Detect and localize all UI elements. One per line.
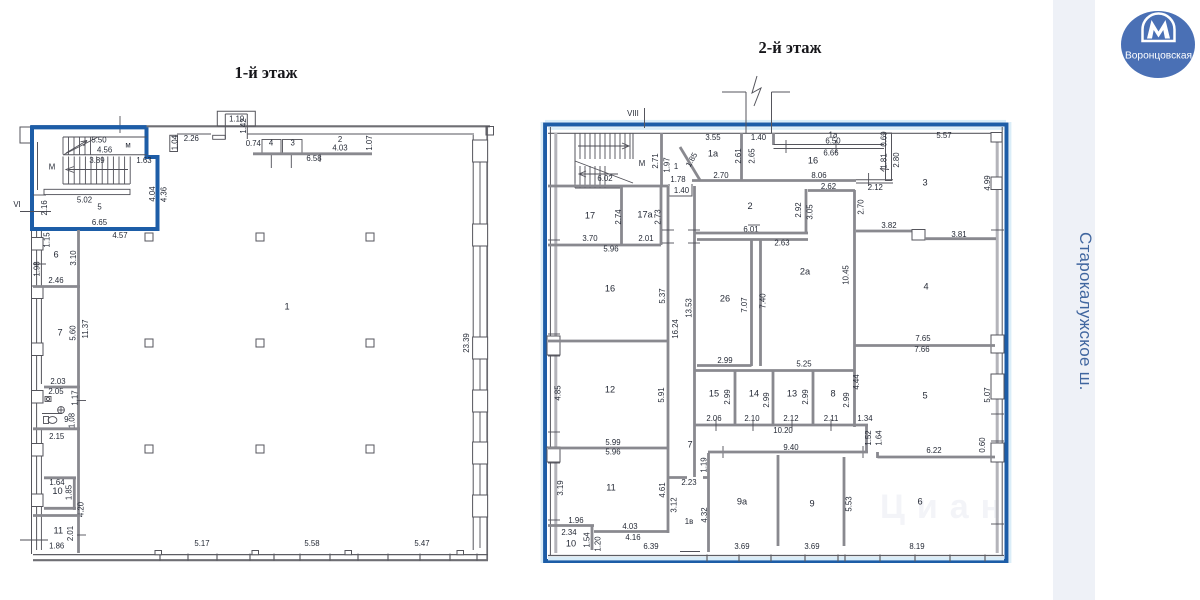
room 10 walls <box>44 476 76 479</box>
plan 1 left wall <box>31 127 33 554</box>
svg-text:1.54: 1.54 <box>583 532 592 548</box>
svg-text:1.34: 1.34 <box>857 414 873 423</box>
svg-text:6.66: 6.66 <box>823 149 838 158</box>
svg-text:2.71: 2.71 <box>651 153 660 168</box>
plan 2 stairs upper flight <box>574 133 576 159</box>
svg-text:4: 4 <box>923 281 928 291</box>
svg-text:26: 26 <box>720 293 730 303</box>
wc toilet symbol <box>44 417 49 424</box>
svg-text:4.57: 4.57 <box>112 231 127 240</box>
svg-text:16.24: 16.24 <box>671 319 680 339</box>
plan 1 top wall inner line <box>177 133 211 135</box>
svg-text:4.85: 4.85 <box>554 385 563 401</box>
stairwell walls <box>548 185 668 188</box>
svg-text:17: 17 <box>585 210 595 220</box>
stairs arrow left lower <box>580 173 618 175</box>
svg-text:2.80: 2.80 <box>892 152 901 168</box>
room 2 wall <box>253 152 372 155</box>
svg-text:1.07: 1.07 <box>365 135 374 150</box>
svg-text:5.07: 5.07 <box>983 387 992 402</box>
svg-text:6: 6 <box>917 496 922 506</box>
svg-text:7.65: 7.65 <box>915 334 931 343</box>
svg-text:5.60: 5.60 <box>69 325 78 341</box>
wall pilaster right of stairwell <box>170 135 178 151</box>
columns grid <box>145 233 153 241</box>
svg-text:7.07: 7.07 <box>740 297 749 312</box>
svg-text:5.53: 5.53 <box>845 496 854 511</box>
svg-text:М: М <box>639 159 646 168</box>
svg-text:1.15: 1.15 <box>43 232 52 248</box>
svg-text:4.03: 4.03 <box>332 144 347 153</box>
svg-text:9: 9 <box>809 498 814 508</box>
room 4 <box>855 344 996 347</box>
wall top of cells row <box>695 369 855 372</box>
svg-text:1.20: 1.20 <box>594 536 603 552</box>
rooms 4 and 3 boxes <box>262 140 281 154</box>
svg-text:10.45: 10.45 <box>842 265 851 285</box>
wc walls <box>44 386 80 389</box>
svg-text:9.40: 9.40 <box>783 443 799 452</box>
cell door ticks <box>715 419 717 431</box>
stairs landing slab <box>44 189 130 194</box>
room 12 <box>548 447 668 450</box>
wc sink symbol <box>58 407 65 414</box>
corridor walls vertical <box>667 186 670 533</box>
svg-text:7.66: 7.66 <box>914 345 929 354</box>
svg-text:1.64: 1.64 <box>875 430 884 446</box>
svg-text:5.91: 5.91 <box>657 387 666 402</box>
svg-text:10.20: 10.20 <box>773 426 793 435</box>
svg-text:1.42: 1.42 <box>239 118 248 133</box>
svg-text:9а: 9а <box>737 496 748 506</box>
svg-text:3.69: 3.69 <box>804 542 819 551</box>
bottom wall windows <box>680 551 700 553</box>
cells 15 14 13 8 <box>734 371 737 425</box>
rooms 17 17a <box>620 186 623 245</box>
room 1a right wall <box>740 133 743 180</box>
svg-text:3.12: 3.12 <box>670 497 679 512</box>
svg-text:6.50: 6.50 <box>825 137 841 146</box>
svg-text:4.99: 4.99 <box>983 175 992 190</box>
svg-text:2.10: 2.10 <box>744 414 760 423</box>
svg-text:М: М <box>49 163 56 172</box>
svg-text:16: 16 <box>808 155 818 165</box>
svg-text:2.12: 2.12 <box>783 414 798 423</box>
watermark <box>880 488 1090 528</box>
room 26 <box>750 240 753 366</box>
room 11 walls <box>33 514 80 517</box>
room 3 bottom wall <box>856 230 913 233</box>
svg-text:5.96: 5.96 <box>605 448 620 457</box>
svg-text:13.53: 13.53 <box>685 298 694 318</box>
svg-text:2.99: 2.99 <box>717 356 732 365</box>
plan 2 left wall radiators <box>547 336 560 355</box>
svg-text:1.98: 1.98 <box>33 261 42 276</box>
svg-text:6.58: 6.58 <box>306 154 321 163</box>
stairs flight upper <box>62 137 64 155</box>
svg-text:7: 7 <box>687 439 692 449</box>
wall between 2 and 2a <box>805 189 808 233</box>
title first floor <box>166 63 366 83</box>
svg-text:2.26: 2.26 <box>184 134 199 143</box>
svg-text:3.19: 3.19 <box>556 480 565 495</box>
plan 2 bottom wall <box>548 555 1004 557</box>
svg-text:7.40: 7.40 <box>759 293 768 309</box>
metro station logo Vorontsovskaya <box>1118 6 1200 86</box>
svg-text:8: 8 <box>830 388 835 398</box>
svg-text:8.06: 8.06 <box>811 171 826 180</box>
svg-text:2.99: 2.99 <box>762 392 771 407</box>
svg-text:4.61: 4.61 <box>658 482 667 497</box>
svg-text:0.69: 0.69 <box>880 131 889 146</box>
svg-text:2.70: 2.70 <box>857 199 866 215</box>
svg-text:6.22: 6.22 <box>926 446 941 455</box>
right wall windows <box>473 140 488 162</box>
svg-text:3.10: 3.10 <box>69 250 78 266</box>
stairs flight lower <box>62 157 64 185</box>
svg-text:4.03: 4.03 <box>622 522 637 531</box>
svg-text:5.96: 5.96 <box>603 245 618 254</box>
stairs upper diagonal <box>64 137 98 155</box>
svg-text:2.62: 2.62 <box>821 182 836 191</box>
svg-text:1.85: 1.85 <box>65 484 74 500</box>
svg-text:2.99: 2.99 <box>801 389 810 404</box>
svg-text:11.37: 11.37 <box>81 320 90 339</box>
svg-text:2.73: 2.73 <box>654 209 663 224</box>
svg-text:1.52: 1.52 <box>864 430 873 445</box>
svg-text:1а: 1а <box>708 148 719 158</box>
svg-text:10: 10 <box>52 486 62 496</box>
svg-text:1.40: 1.40 <box>751 133 767 142</box>
stairwell inner wall line <box>37 142 39 190</box>
svg-text:3.82: 3.82 <box>881 221 896 230</box>
svg-text:5: 5 <box>97 203 102 212</box>
svg-text:3.05: 3.05 <box>806 204 815 220</box>
svg-text:5.47: 5.47 <box>414 539 429 548</box>
svg-text:5.02: 5.02 <box>77 195 92 204</box>
vestibule M <box>660 133 663 186</box>
plan 1 bottom wall <box>33 554 488 556</box>
svg-text:1в: 1в <box>685 517 693 526</box>
svg-text:2.15: 2.15 <box>49 432 65 441</box>
svg-text:3.69: 3.69 <box>734 542 749 551</box>
svg-text:13: 13 <box>787 388 797 398</box>
wc urinal symbol <box>45 397 51 402</box>
svg-text:1.04: 1.04 <box>170 134 179 150</box>
svg-text:1.08: 1.08 <box>68 413 77 428</box>
svg-text:10: 10 <box>566 538 576 548</box>
svg-text:1.17: 1.17 <box>71 390 80 405</box>
street name vertical text <box>1053 232 1095 452</box>
diagonal wall room 1a <box>680 147 701 181</box>
svg-text:2.46: 2.46 <box>48 276 63 285</box>
svg-text:2.06: 2.06 <box>706 414 721 423</box>
svg-text:6: 6 <box>53 249 58 259</box>
stairs mid line <box>63 154 147 156</box>
bottom wall window piers <box>155 551 162 555</box>
svg-text:11: 11 <box>606 482 616 492</box>
plan 1 right wall <box>472 135 474 550</box>
svg-text:м: м <box>125 141 130 150</box>
svg-text:0.74: 0.74 <box>246 139 262 148</box>
svg-text:17а: 17а <box>637 209 653 219</box>
svg-text:VI: VI <box>13 200 20 209</box>
dimension ticks plan 2 <box>662 229 674 231</box>
svg-text:5.37: 5.37 <box>658 288 667 303</box>
svg-text:5.50: 5.50 <box>91 135 107 144</box>
svg-text:5: 5 <box>922 390 927 400</box>
rooms 9a 9 6 dividers <box>777 455 780 546</box>
svg-text:2.16: 2.16 <box>40 200 49 215</box>
ledge wall room 16 top <box>772 133 775 145</box>
svg-text:5.58: 5.58 <box>304 539 319 548</box>
svg-text:2.70: 2.70 <box>713 171 729 180</box>
svg-text:2.99: 2.99 <box>723 389 732 404</box>
upper corridor wall <box>692 179 856 182</box>
plan 2 stairs lower flight <box>575 161 633 183</box>
svg-text:1.85: 1.85 <box>684 150 700 168</box>
svg-text:4.56: 4.56 <box>97 146 112 155</box>
svg-text:1.86: 1.86 <box>49 541 64 550</box>
entrance shaft above plan 2 <box>745 92 747 133</box>
svg-text:0.60: 0.60 <box>978 437 987 453</box>
svg-text:23.39: 23.39 <box>462 333 471 353</box>
svg-text:1.78: 1.78 <box>670 175 685 184</box>
svg-text:5.25: 5.25 <box>796 360 812 369</box>
room 2a <box>759 240 762 366</box>
svg-text:6.39: 6.39 <box>643 542 658 551</box>
plan 1 top-left corner block <box>20 127 31 143</box>
room 16 right wall <box>886 133 892 181</box>
wall 2.63 and room 26 top <box>697 238 808 241</box>
plan 1 roof bump outer <box>217 111 255 126</box>
svg-text:2.12: 2.12 <box>868 183 883 192</box>
svg-text:3.81: 3.81 <box>951 230 966 239</box>
left wall pilasters <box>32 238 44 251</box>
svg-text:1.96: 1.96 <box>568 516 583 525</box>
svg-text:2.05: 2.05 <box>48 387 64 396</box>
street strip (Starokaluzhskoe highway) <box>1053 0 1095 600</box>
stairs arrow lower <box>68 169 128 171</box>
svg-text:16: 16 <box>605 283 615 293</box>
tick marks on top wall <box>119 116 121 133</box>
svg-text:2а: 2а <box>800 266 811 276</box>
right wall top corner cap <box>486 127 494 136</box>
svg-text:3: 3 <box>922 177 927 187</box>
room 16 middle <box>548 340 668 343</box>
svg-text:VIII: VIII <box>627 109 639 118</box>
svg-text:2.23: 2.23 <box>681 478 696 487</box>
svg-text:2.01: 2.01 <box>638 234 653 243</box>
svg-text:4: 4 <box>269 139 274 148</box>
plan 2 right wall radiators <box>991 133 1002 143</box>
svg-text:3.70: 3.70 <box>582 234 598 243</box>
svg-text:1.97: 1.97 <box>663 157 672 172</box>
svg-text:5.17: 5.17 <box>194 539 209 548</box>
blue highlight box stairwell unit VI <box>32 127 158 229</box>
svg-text:2.61: 2.61 <box>734 148 743 163</box>
stairs arrow upper <box>66 141 87 154</box>
svg-text:2.03: 2.03 <box>50 377 65 386</box>
corridor bottom walls <box>865 425 868 453</box>
plan 2 left wall <box>549 127 551 556</box>
room 6 walls <box>77 230 80 553</box>
svg-text:6.02: 6.02 <box>597 174 612 183</box>
svg-text:2.34: 2.34 <box>561 528 577 537</box>
plan 2 blue perimeter <box>545 125 1007 562</box>
wall right of 2a <box>853 190 856 427</box>
svg-text:2.63: 2.63 <box>774 239 789 248</box>
svg-text:1.63: 1.63 <box>136 156 151 165</box>
svg-text:8.19: 8.19 <box>909 542 924 551</box>
plan 1 roof bump shaft <box>224 114 226 139</box>
svg-text:4.44: 4.44 <box>852 374 861 390</box>
svg-text:2.92: 2.92 <box>794 202 803 217</box>
svg-text:2.65: 2.65 <box>748 148 757 164</box>
svg-text:1: 1 <box>284 301 289 311</box>
svg-text:3.55: 3.55 <box>705 133 721 142</box>
room 10 plan2 and step walls <box>548 524 594 527</box>
svg-text:6.65: 6.65 <box>92 218 108 227</box>
svg-text:2.01: 2.01 <box>66 526 75 541</box>
title second floor <box>690 38 890 58</box>
vestibule 9a walls <box>668 476 687 479</box>
svg-text:2.99: 2.99 <box>842 392 851 407</box>
svg-text:5.99: 5.99 <box>605 438 620 447</box>
svg-text:1.40: 1.40 <box>674 186 690 195</box>
stairs arrow right <box>578 145 628 147</box>
svg-text:3: 3 <box>291 139 295 148</box>
svg-text:4.32: 4.32 <box>700 507 709 522</box>
plan 1 top wall outer <box>31 125 490 127</box>
svg-text:4.16: 4.16 <box>625 533 640 542</box>
svg-text:5.57: 5.57 <box>936 131 951 140</box>
svg-text:2.74: 2.74 <box>614 209 623 225</box>
svg-text:11: 11 <box>54 526 64 536</box>
svg-text:4.04: 4.04 <box>148 186 157 202</box>
entrance break symbol <box>752 76 761 106</box>
svg-text:15: 15 <box>709 388 719 398</box>
svg-text:12: 12 <box>605 384 615 394</box>
svg-text:14: 14 <box>749 388 759 398</box>
svg-text:1: 1 <box>674 162 678 171</box>
svg-text:4.36: 4.36 <box>160 187 169 202</box>
plan 2 right wall <box>1001 127 1003 556</box>
svg-text:1.81: 1.81 <box>880 153 889 168</box>
plan 2 top wall <box>548 132 996 134</box>
svg-text:7: 7 <box>57 327 62 337</box>
svg-text:2: 2 <box>747 201 752 211</box>
